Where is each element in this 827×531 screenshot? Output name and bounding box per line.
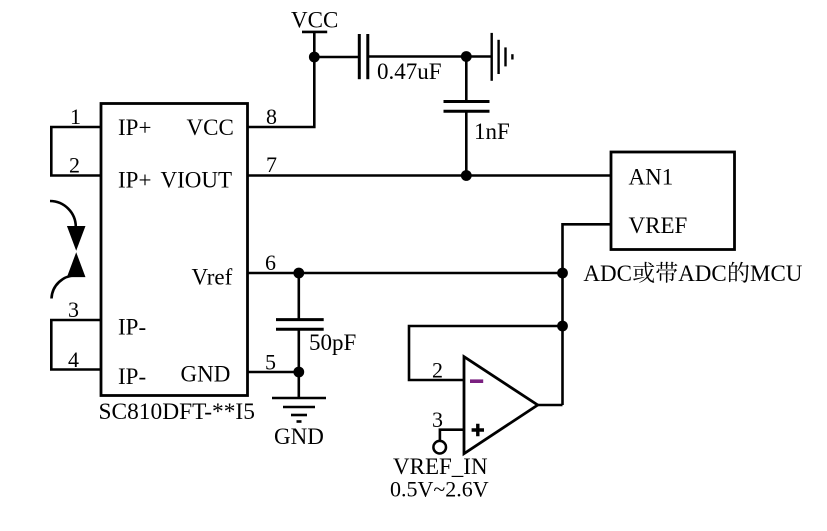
svg-text:VREF_IN: VREF_IN <box>393 454 488 479</box>
node junction Vref/C3 <box>293 268 304 279</box>
svg-text:8: 8 <box>266 104 277 129</box>
pin 3 IP- label <box>118 315 146 340</box>
ADC pin VREF label <box>629 213 688 238</box>
svg-text:SC810DFT-**I5: SC810DFT-**I5 <box>99 399 255 425</box>
capacitor C2 1nF <box>444 102 490 112</box>
svg-text:7: 7 <box>266 152 277 177</box>
pin 7 VIOUT label <box>161 168 233 193</box>
wire Vref net pin6 to op-amp branch <box>247 272 563 275</box>
svg-text:1: 1 <box>70 104 81 129</box>
pin 7 number label <box>266 152 277 177</box>
svg-text:0.5V~2.6V: 0.5V~2.6V <box>390 477 489 502</box>
op-amp U2 pin 3 number label <box>432 407 443 432</box>
op-amp U2 pin 2 number label <box>432 358 443 383</box>
pin 4 number label <box>68 347 79 372</box>
node junction VIOUT/C2 <box>461 170 472 181</box>
pin 6 Vref label <box>192 265 233 290</box>
op-amp U2 non-inverting input plus sign <box>472 424 484 436</box>
pin 2 number label <box>69 153 80 178</box>
svg-text:IP-: IP- <box>118 315 146 340</box>
ADC pin AN1 label <box>629 165 674 190</box>
wire ground node down to capacitor C2 <box>465 57 468 102</box>
svg-text:ADC: ADC <box>583 261 632 286</box>
pin 2 IP+ label <box>118 168 151 193</box>
node junction VCC rail <box>309 52 320 63</box>
svg-text:MCU: MCU <box>750 261 803 286</box>
svg-text:4: 4 <box>68 347 79 372</box>
pin 3 wire IP- <box>50 319 101 322</box>
wire op-amp output riser <box>561 273 564 405</box>
svg-text:0.47uF: 0.47uF <box>377 59 442 84</box>
svg-text:VIOUT: VIOUT <box>161 168 233 193</box>
svg-text:VCC: VCC <box>187 115 234 140</box>
svg-text:GND: GND <box>274 424 324 449</box>
capacitor C3 50pF <box>276 320 324 330</box>
VREF_IN net label <box>393 454 488 479</box>
pin 4 wire IP- <box>50 368 101 371</box>
svg-text:3: 3 <box>68 297 79 322</box>
wire VIOUT net pin7 to AN1 <box>247 174 611 177</box>
pin 8 VCC label <box>187 115 234 140</box>
pin 6 number label <box>265 250 276 275</box>
svg-text:1nF: 1nF <box>474 119 510 144</box>
wire VREF pin to Vref net <box>563 224 612 273</box>
pin 5 GND label <box>181 362 231 387</box>
pin 1 wire IP+ <box>50 126 101 129</box>
pin 2 wire IP+ <box>50 174 101 177</box>
pin 1 IP+ label <box>118 115 151 140</box>
node junction at C1/C2/ground <box>461 51 472 62</box>
node junction Vref/VREF/op-amp <box>557 268 568 279</box>
node junction feedback <box>557 321 568 332</box>
svg-text:3: 3 <box>432 407 443 432</box>
wire pin 5 to GND node <box>247 371 299 374</box>
svg-text:2: 2 <box>69 153 80 178</box>
C2 value label 1nF <box>474 119 510 144</box>
node junction pin5/C3/ground <box>293 367 304 378</box>
ground symbol bottom <box>272 398 326 422</box>
GND net label <box>274 424 324 449</box>
wire joining pins 3 and 4 <box>50 320 53 370</box>
svg-text:50pF: 50pF <box>309 330 356 355</box>
VREF_IN voltage range label 0.5V~2.6V <box>390 477 489 502</box>
C3 value label 50pF <box>309 330 356 355</box>
capacitor C1 0.47uF <box>359 34 368 79</box>
wire C1 to ground node <box>368 55 492 58</box>
ground symbol (rotated) top right <box>492 33 513 81</box>
wire joining pins 1 and 2 <box>50 127 53 176</box>
pin 1 number label <box>70 104 81 129</box>
svg-text:GND: GND <box>181 362 231 387</box>
VCC net label <box>291 8 338 33</box>
wire VCC rail down to pin 8 <box>247 57 314 127</box>
wire op-amp output to riser <box>538 404 563 407</box>
wire VCC node to capacitor C1 <box>314 56 359 59</box>
C1 value label 0.47uF <box>377 59 442 84</box>
svg-text:ADC: ADC <box>678 261 727 286</box>
svg-text:2: 2 <box>432 358 443 383</box>
svg-text:IP+: IP+ <box>118 168 151 193</box>
svg-text:VREF: VREF <box>629 213 688 238</box>
VCC power symbol <box>302 32 327 57</box>
IC U1 part number label SC810DFT-**I5 <box>99 399 255 425</box>
wire non-inverting input to VREF_IN terminal <box>440 430 464 441</box>
svg-text:VCC: VCC <box>291 8 338 33</box>
primary current flow arrow symbol <box>50 201 84 299</box>
wire feedback top <box>409 326 563 380</box>
IC U1 body <box>101 104 248 396</box>
ADC box <box>611 152 735 250</box>
svg-text:AN1: AN1 <box>629 165 674 190</box>
op-amp U2 triangle <box>464 357 538 454</box>
wire C3 to GND node <box>297 329 300 398</box>
svg-text:Vref: Vref <box>192 265 233 290</box>
svg-text:6: 6 <box>265 250 276 275</box>
ADC description label ADC or MCU with ADC <box>583 261 802 286</box>
pin 3 number label <box>68 297 79 322</box>
pin 4 IP- label <box>118 364 146 389</box>
op-amp U2 inverting input minus sign <box>470 379 483 383</box>
pin 8 number label <box>266 104 277 129</box>
wire C2 down to VIOUT net <box>465 111 468 175</box>
pin 5 number label <box>265 350 276 375</box>
wire Vref node down to capacitor C3 <box>297 273 300 320</box>
VREF_IN terminal circle <box>433 441 446 454</box>
svg-text:IP-: IP- <box>118 364 146 389</box>
svg-text:IP+: IP+ <box>118 115 151 140</box>
